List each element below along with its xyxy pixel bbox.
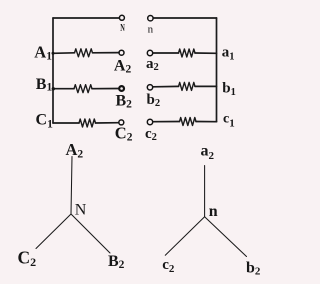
terminal a2 [147, 50, 152, 55]
wire right top from n [153, 17, 216, 19]
junction dot A row [52, 52, 55, 55]
wire b1 branch right [195, 85, 217, 87]
wire star N to B2 leg [71, 214, 110, 253]
resistor phase c secondary [180, 118, 197, 126]
wire b2 branch left [153, 85, 178, 87]
resistor phase C primary [79, 119, 96, 127]
terminal n [148, 16, 153, 21]
terminal B2 [119, 86, 124, 91]
wire a2 branch left [153, 52, 178, 54]
wire right bus [216, 18, 218, 122]
svg-text:n: n [148, 23, 154, 35]
resistor phase A primary [75, 49, 93, 57]
wire left top to N [53, 17, 119, 19]
wire star N vertical (A2 leg) [71, 157, 72, 215]
wire left bus [52, 18, 54, 123]
terminal N [119, 15, 124, 20]
terminal c2 [147, 119, 152, 124]
wire star n to b2 leg [205, 217, 247, 257]
svg-text:n: n [209, 203, 218, 220]
wire c1 branch right [196, 121, 217, 123]
wire B1 branch left [53, 88, 74, 90]
wire A1 branch left [53, 52, 75, 55]
terminal C2 [119, 120, 124, 125]
terminal b2 [147, 85, 152, 90]
svg-text:N: N [75, 202, 87, 219]
wire C1 branch left [53, 122, 79, 124]
wire star n vertical (a2 leg) [204, 166, 206, 217]
terminal A2 [119, 50, 124, 55]
wire a1 branch right [195, 52, 217, 54]
svg-text:N: N [120, 22, 125, 34]
wire star n to c2 leg [165, 217, 204, 256]
wire A1 branch right [93, 52, 120, 54]
junction dot B row [52, 87, 55, 90]
wire C1 branch right [96, 122, 119, 124]
wire star N to C2 leg [36, 214, 71, 249]
resistor phase a secondary [179, 49, 196, 57]
wire B1 branch right [92, 88, 119, 90]
resistor phase b secondary [179, 82, 196, 90]
wire c2 branch left [153, 121, 179, 123]
resistor phase B primary [74, 85, 92, 93]
